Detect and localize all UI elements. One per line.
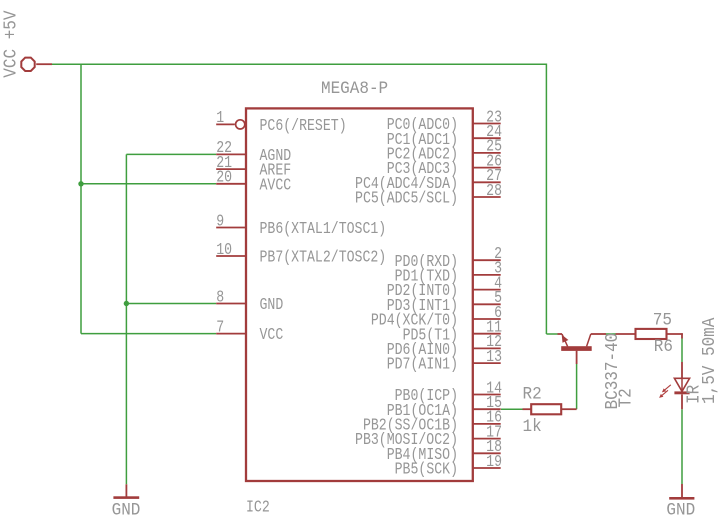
- svg-text:10: 10: [216, 242, 232, 260]
- svg-text:PC5(ADC5/SCL): PC5(ADC5/SCL): [355, 190, 458, 208]
- svg-text:R6: R6: [654, 338, 673, 358]
- svg-text:VCC +5V: VCC +5V: [2, 10, 22, 78]
- svg-text:8: 8: [216, 289, 224, 307]
- svg-text:PB6(XTAL1/TOSC1): PB6(XTAL1/TOSC1): [260, 221, 387, 239]
- svg-text:R2: R2: [523, 385, 542, 405]
- svg-text:MEGA8-P: MEGA8-P: [321, 79, 388, 99]
- svg-text:AVCC: AVCC: [260, 177, 292, 195]
- svg-text:PC6(/RESET): PC6(/RESET): [260, 118, 347, 136]
- svg-text:GND: GND: [112, 501, 141, 521]
- svg-text:VCC: VCC: [260, 327, 284, 345]
- svg-text:13: 13: [486, 349, 502, 367]
- svg-text:19: 19: [486, 454, 502, 472]
- svg-text:1: 1: [216, 110, 224, 128]
- svg-text:GND: GND: [260, 297, 284, 315]
- svg-text:PB5(SCK): PB5(SCK): [395, 461, 458, 479]
- svg-text:T2: T2: [617, 388, 637, 407]
- svg-text:1k: 1k: [523, 417, 542, 437]
- svg-text:28: 28: [486, 183, 502, 201]
- svg-text:PB7(XTAL2/TOSC2): PB7(XTAL2/TOSC2): [260, 249, 387, 267]
- svg-text:7: 7: [216, 319, 224, 337]
- svg-text:1,5V 50mA: 1,5V 50mA: [700, 317, 720, 404]
- svg-text:IC2: IC2: [246, 499, 270, 517]
- svg-text:GND: GND: [666, 501, 695, 521]
- svg-text:75: 75: [653, 311, 672, 331]
- svg-text:9: 9: [216, 213, 224, 231]
- svg-text:PD7(AIN1): PD7(AIN1): [387, 357, 458, 375]
- svg-text:20: 20: [216, 169, 232, 187]
